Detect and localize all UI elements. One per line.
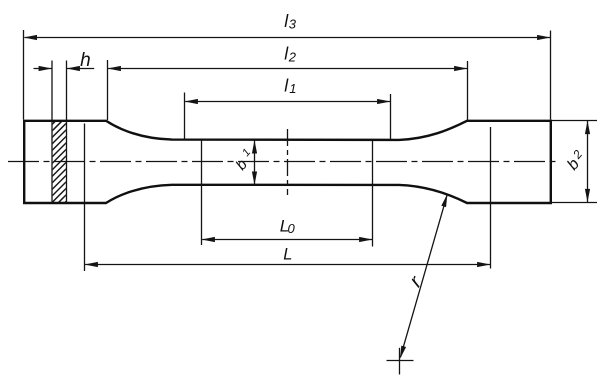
label L0	[280, 216, 296, 236]
svg-text:3: 3	[289, 17, 297, 32]
dimension l2	[108, 60, 468, 120]
svg-text:2: 2	[288, 49, 297, 64]
svg-text:h: h	[80, 50, 91, 71]
dimension l1	[185, 93, 391, 141]
centerline horizontal	[8, 161, 558, 163]
label b2	[564, 147, 585, 174]
label h	[80, 50, 91, 71]
label l1	[284, 75, 296, 96]
dimension b1	[252, 140, 257, 185]
label l3	[284, 11, 297, 32]
svg-text:0: 0	[288, 221, 296, 236]
label b1	[233, 147, 254, 174]
dimension h	[34, 61, 95, 121]
dimension L0	[202, 140, 373, 247]
label l2	[284, 44, 297, 65]
svg-text:L: L	[283, 245, 292, 263]
svg-text:1: 1	[289, 81, 296, 96]
dimension r (radius leader)	[400, 194, 447, 359]
label L	[283, 245, 292, 263]
hatch region h (gripped band)	[40, 90, 80, 241]
specimen outline	[24, 121, 551, 203]
centerline vertical (specimen centre mark)	[287, 129, 289, 195]
label r	[405, 271, 427, 291]
dimension b2	[551, 121, 597, 203]
svg-text:1: 1	[240, 147, 253, 159]
dimension l3	[24, 30, 551, 120]
radius centre cross	[387, 348, 414, 375]
dimension L	[85, 124, 491, 272]
